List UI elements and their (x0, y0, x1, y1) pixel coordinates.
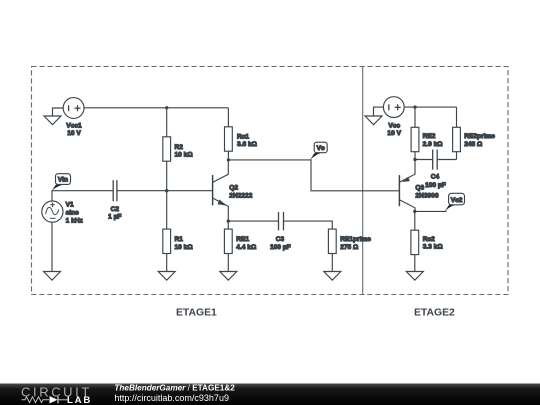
resistor Rc1 (225, 108, 233, 160)
svg-text:4.4 kΩ: 4.4 kΩ (236, 244, 257, 251)
svg-text:100 µF: 100 µF (270, 244, 291, 251)
CircuitLab logo wire glyph: resistor zigzag + diode (22, 396, 69, 404)
wire Vcc1 top rail (84, 107, 228, 109)
svg-text:Q2: Q2 (229, 184, 238, 191)
svg-text:Q3: Q3 (415, 185, 424, 192)
wire RE2 junction to C4 (415, 159, 432, 161)
svg-text:C2: C2 (111, 206, 120, 213)
ground (Vcc) (365, 116, 382, 125)
stage box ETAGE1/ETAGE2 dashed border (32, 67, 509, 295)
svg-text:Vc2: Vc2 (451, 197, 463, 204)
resistor R1 (163, 191, 171, 272)
svg-text:2.9 kΩ: 2.9 kΩ (423, 141, 444, 148)
svg-text:RE1prime: RE1prime (340, 236, 371, 243)
svg-text:RE2: RE2 (423, 133, 436, 140)
resistor RE1 (224, 221, 232, 271)
resistor RE1prime (328, 229, 336, 271)
capacitor C2 (113, 180, 117, 201)
node flag Vc2 (445, 193, 465, 211)
resistor RE2prime (453, 107, 461, 159)
svg-text:10 V: 10 V (67, 130, 81, 137)
wire emitter junction to C3 (228, 220, 278, 222)
voltage source Vcc1 (63, 98, 84, 119)
svg-text:LAB: LAB (67, 395, 92, 405)
svg-text:RE2prime: RE2prime (464, 133, 495, 140)
wire Vcc to ground (374, 107, 384, 116)
svg-text:1 µF: 1 µF (108, 213, 121, 220)
capacitor C4 (433, 150, 438, 170)
transistor Q2 2N2222 (213, 160, 229, 221)
node flag Vc (310, 142, 327, 160)
wire collector junction to Vc2 flag (415, 210, 447, 212)
junction Q3 collector / Rc2 / Vc2 (413, 210, 416, 213)
svg-text:Vcc1: Vcc1 (66, 122, 82, 129)
ground (Rc2) (406, 272, 423, 281)
svg-text:2N3906: 2N3906 (415, 192, 438, 199)
wire C3 to RE1prime (284, 221, 332, 229)
resistor Rc2 (411, 211, 419, 271)
svg-text:3.6 kΩ: 3.6 kΩ (237, 141, 258, 148)
svg-text:TheBlenderGamer / ETAGE1&2: TheBlenderGamer / ETAGE1&2 (114, 384, 235, 393)
svg-text:ETAGE1: ETAGE1 (176, 308, 217, 319)
ground (RE1prime) (324, 272, 341, 281)
svg-text:http://circuitlab.com/c93h7u9: http://circuitlab.com/c93h7u9 (114, 393, 229, 403)
junction RE2 / C4 / Q3 emitter (413, 158, 416, 161)
svg-text:2N2222: 2N2222 (229, 193, 252, 200)
ground (Vcc1) (44, 116, 61, 125)
resistor RE2 (411, 107, 419, 159)
svg-text:C4: C4 (431, 173, 440, 180)
svg-text:R2: R2 (175, 144, 184, 151)
junction base wire / R2 R1 (165, 189, 168, 192)
voltage source V1 sine (42, 191, 63, 223)
junction Rc1 / collector / Vc (227, 158, 230, 161)
transistor Q3 2N3906 (399, 160, 415, 212)
junction top rail / RE2 (413, 105, 416, 108)
svg-text:R1: R1 (175, 236, 184, 243)
svg-text:10 kΩ: 10 kΩ (175, 152, 194, 159)
svg-text:sine: sine (66, 209, 80, 216)
wire C2 to Q2 base (118, 190, 213, 192)
junction emitter / RE1 / C3 (227, 219, 230, 222)
wire Vcc1 to ground (53, 108, 64, 116)
svg-text:Rc2: Rc2 (423, 236, 435, 243)
svg-text:ETAGE2: ETAGE2 (414, 308, 455, 319)
svg-text:3.3 kΩ: 3.3 kΩ (423, 244, 444, 251)
voltage source Vcc (383, 97, 404, 118)
svg-text:275 Ω: 275 Ω (340, 244, 359, 251)
svg-text:V1: V1 (66, 201, 74, 208)
wire C4 to RE2prime bottom (438, 159, 457, 161)
node flag Vin (51, 174, 70, 192)
svg-text:C3: C3 (276, 236, 285, 243)
svg-text:10 kΩ: 10 kΩ (175, 244, 194, 251)
ground (R1) (158, 272, 175, 281)
ground (V1) (44, 272, 61, 281)
svg-text:Vc: Vc (317, 145, 325, 152)
svg-text:100 µF: 100 µF (425, 182, 446, 189)
wire Vcc top rail stage2 (404, 106, 456, 108)
junction top rail / R2 (165, 106, 168, 109)
wire V1 to ground (51, 222, 53, 272)
svg-text:1 kHz: 1 kHz (66, 217, 84, 224)
svg-text:RE1: RE1 (236, 236, 249, 243)
resistor R2 (163, 108, 171, 191)
svg-text:10 V: 10 V (387, 130, 401, 137)
wire Vin node to C2 (52, 190, 113, 192)
wire Vc net: collector to Q3 base (228, 160, 399, 191)
svg-text:Rc1: Rc1 (237, 133, 249, 140)
capacitor C3 (279, 212, 284, 230)
svg-text:Vin: Vin (58, 177, 68, 184)
svg-text:Vcc: Vcc (388, 123, 400, 130)
ground (RE1) (220, 272, 237, 281)
svg-text:246 Ω: 246 Ω (464, 141, 483, 148)
footer bar (0, 384, 540, 405)
